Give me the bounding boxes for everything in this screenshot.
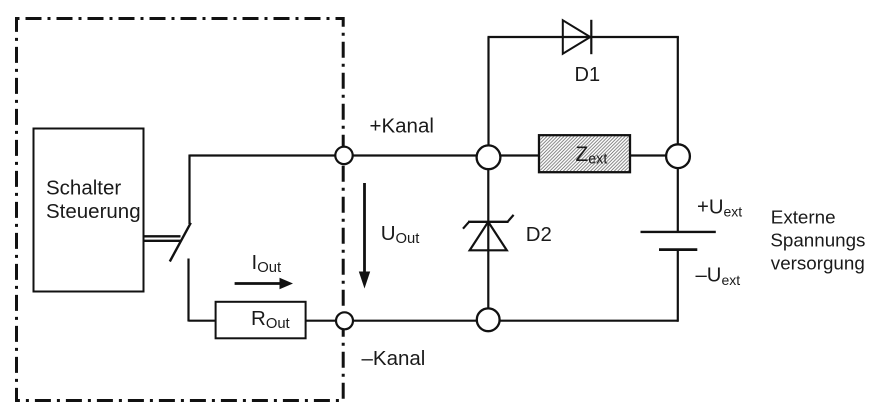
svg-text:D2: D2 — [526, 224, 552, 246]
svg-text:versorgung: versorgung — [771, 252, 865, 273]
wire: bottom rail from switch through ROut to right side — [189, 320, 679, 322]
junction node bottom center — [477, 308, 500, 331]
wire: right vertical from D1 rail to node — [677, 37, 679, 156]
junction node top right — [666, 144, 690, 168]
svg-text:+Kanal: +Kanal — [370, 114, 434, 137]
impedance Zext hatched box — [539, 135, 630, 172]
svg-text:Spannungs: Spannungs — [770, 230, 865, 251]
node +Kanal — [335, 147, 352, 164]
Schalter Steuerung block — [34, 129, 144, 292]
wire: left vertical up to D1 rail — [487, 37, 489, 156]
suppressor diode D2 — [468, 221, 509, 223]
battery plates — [641, 231, 716, 233]
wire: D2 branch vertical — [487, 156, 489, 321]
switch actuator double line — [144, 235, 181, 237]
dash-dot enclosure frame — [17, 19, 344, 401]
wire: right vertical node to battery top plate — [677, 156, 679, 231]
switch blade — [170, 223, 191, 262]
svg-text:Externe: Externe — [771, 207, 836, 228]
wire: switch lower terminal vertical — [187, 259, 189, 322]
node -Kanal — [336, 312, 353, 329]
svg-text:–Kanal: –Kanal — [362, 347, 426, 370]
wire: top rail from switch to +Kanal node and on to right — [190, 154, 679, 156]
junction node top center — [477, 145, 501, 169]
svg-text:Steuerung: Steuerung — [46, 200, 141, 223]
wire: switch upper terminal vertical — [188, 155, 190, 225]
diode D1 — [563, 20, 591, 53]
wire: D1 top rail — [488, 36, 679, 38]
resistor ROut — [216, 302, 306, 339]
svg-text:Schalter: Schalter — [46, 177, 121, 200]
arrow UOut — [363, 183, 366, 273]
arrow IOut — [235, 282, 281, 285]
wire: battery bottom plate down to bottom rail — [677, 250, 679, 322]
svg-text:D1: D1 — [575, 64, 601, 86]
